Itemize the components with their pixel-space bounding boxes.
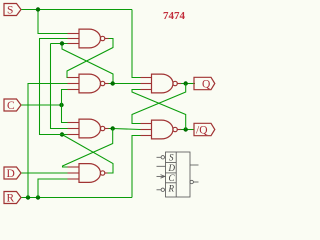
wire G2out net vertical to G4 pin2	[51, 44, 68, 129]
terminal flag /Q	[194, 123, 215, 136]
pin D	[157, 165, 166, 167]
wire R to G6 pin3	[132, 136, 141, 198]
wire G1 pin3 stub	[51, 43, 68, 45]
svg-text:R: R	[7, 193, 15, 205]
NAND gate U6 right-bottom	[141, 120, 182, 139]
component 7474 box	[157, 152, 199, 197]
node S junction	[36, 7, 40, 11]
wire G2 output to G1 pin3 (diagonal)	[62, 44, 113, 84]
wire C input	[21, 104, 62, 106]
wire G4 output to G6 pin2	[108, 129, 141, 130]
node J4	[111, 126, 115, 130]
wire G1 output to G2 pin1 (diagonal)	[67, 39, 113, 78]
wire J5 to G4 pin3	[62, 134, 68, 136]
wire D input to G3 pin2	[21, 172, 68, 174]
wire C to G4 pin1	[62, 105, 68, 123]
node J6	[184, 127, 188, 131]
pin Q	[190, 164, 199, 166]
svg-text:S: S	[7, 5, 13, 17]
svg-text:C: C	[7, 100, 15, 112]
wire G5 output to Q	[181, 83, 196, 85]
wire C to G2 pin3	[62, 90, 68, 106]
wire G4 output to G3 pin1 (diagonal)	[63, 129, 113, 168]
terminal flag D	[4, 167, 21, 180]
pin S with bubble	[157, 156, 162, 158]
wire S to G1 pin1	[38, 10, 68, 34]
node J2	[111, 81, 115, 85]
wire G6 output to /Q	[181, 129, 195, 131]
pin C with clock arrow	[157, 175, 166, 177]
pin /Q with bubble	[190, 180, 193, 183]
wire R input	[21, 197, 132, 199]
terminal flag R	[4, 192, 21, 205]
terminal flag S	[4, 4, 21, 17]
wire G6 output to G5 pin3 (cross)	[132, 90, 186, 130]
node R junction 1	[26, 195, 30, 199]
svg-text:C: C	[169, 173, 176, 183]
svg-text:D: D	[168, 163, 176, 173]
node J5	[60, 132, 64, 136]
terminal flag Q	[194, 77, 215, 90]
terminal flag C	[4, 99, 21, 112]
svg-text:D: D	[7, 168, 15, 180]
wire R to G2 pin2	[28, 84, 68, 198]
node J1	[60, 41, 64, 45]
wire S to G5 pin1	[132, 10, 141, 78]
svg-text:S: S	[169, 153, 174, 163]
node R junction 2	[36, 195, 40, 199]
svg-text:R: R	[168, 184, 175, 194]
wire G3 output to J5 (diagonal)	[62, 135, 113, 174]
NAND gate U3 (third from top)	[68, 119, 109, 138]
wire G2 output to G5 pin2	[108, 83, 141, 85]
NAND gate U1 top-left	[68, 29, 109, 48]
svg-text:7474: 7474	[163, 10, 186, 22]
node C junction	[59, 103, 63, 107]
wire J5 to G1 pin2	[40, 39, 68, 135]
svg-text:Q: Q	[202, 79, 211, 91]
wire G5 output to G6 pin1 (cross)	[132, 84, 186, 124]
node J3	[184, 81, 188, 85]
wire R to G3 pin3	[38, 179, 68, 198]
NAND gate U2	[68, 74, 109, 93]
svg-text:/Q: /Q	[196, 125, 208, 137]
wire S horizontal	[21, 9, 132, 11]
NAND gate U4 bottom	[68, 164, 108, 183]
NAND gate U5 right-top	[141, 74, 182, 93]
pin R with bubble	[157, 189, 162, 191]
